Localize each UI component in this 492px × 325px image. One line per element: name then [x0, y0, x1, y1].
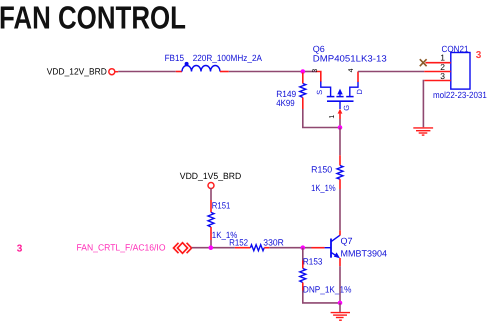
svg-text:FB15: FB15	[165, 53, 184, 63]
wire R151 to signal node	[210, 240, 212, 248]
junction node emitter/ground	[338, 301, 343, 306]
svg-text:1K_1%: 1K_1%	[311, 183, 336, 193]
svg-text:Q6: Q6	[313, 44, 325, 54]
svg-text:DNP_1K_1%: DNP_1K_1%	[303, 285, 352, 295]
svg-text:mol22-23-2031: mol22-23-2031	[433, 90, 487, 100]
ground under CON21	[413, 128, 433, 135]
connector CON21	[424, 53, 470, 90]
resistor R152	[235, 245, 269, 251]
transistor Q6 p-mosfet	[316, 72, 358, 120]
off-page connector	[174, 243, 192, 254]
junction node gate/R150	[338, 125, 343, 130]
resistor R149	[300, 73, 306, 110]
wire CON21 pin 3 to ground	[422, 81, 425, 128]
svg-text:R153: R153	[303, 256, 323, 266]
drain lead	[350, 82, 358, 97]
ferrite bead FB15	[176, 62, 229, 72]
svg-text:4K99: 4K99	[276, 98, 295, 108]
svg-text:MMBT3904: MMBT3904	[341, 249, 388, 259]
transistor Q7 npn	[312, 230, 341, 266]
wire off-page to junction	[192, 247, 235, 249]
wire FB15 to node	[229, 71, 303, 73]
junction node R151/signal	[209, 245, 214, 250]
wire node to Q6 source pin	[303, 71, 316, 73]
svg-text:R151: R151	[212, 201, 231, 211]
svg-text:D: D	[355, 89, 364, 95]
svg-text:3: 3	[17, 243, 23, 254]
wire junction down to R153	[302, 248, 304, 261]
junction node base/R153	[301, 245, 306, 250]
junction node VDD/R149	[301, 69, 306, 74]
terminal circle VDD_12V_BRD	[109, 69, 118, 75]
wire gate node down to R150	[339, 128, 341, 156]
resistor R150	[337, 155, 343, 189]
svg-text:Q7: Q7	[341, 236, 353, 246]
svg-text:330R: 330R	[263, 237, 284, 247]
svg-text:3: 3	[312, 69, 319, 73]
svg-text:4: 4	[348, 68, 355, 72]
svg-text:R150: R150	[311, 164, 332, 174]
svg-text:CON21: CON21	[442, 44, 469, 54]
source lead	[321, 82, 331, 97]
svg-text:VDD_12V_BRD: VDD_12V_BRD	[47, 67, 107, 77]
wire R150 to Q7 collector	[339, 189, 341, 230]
resistor R151	[208, 200, 214, 240]
gate plate	[327, 100, 354, 102]
svg-text:FAN_CRTL_F/AC16/IO: FAN_CRTL_F/AC16/IO	[77, 242, 166, 252]
pin 1 gate stub with arrow	[338, 109, 343, 114]
wire R149 to gate node	[303, 109, 340, 128]
svg-text:DMP4051LK3-13: DMP4051LK3-13	[313, 53, 387, 63]
ground under Q7	[331, 313, 350, 321]
wire terminal to R151	[210, 188, 212, 200]
wire junction to ground	[339, 303, 341, 312]
svg-text:3: 3	[440, 71, 445, 81]
wire Q7 emitter to ground rail	[339, 266, 341, 303]
pin 4 drain stub	[357, 72, 359, 83]
svg-text:R152: R152	[229, 237, 248, 247]
svg-text:3: 3	[476, 50, 482, 61]
svg-text:1: 1	[440, 53, 445, 63]
svg-text:G: G	[342, 105, 351, 111]
svg-text:1: 1	[329, 115, 336, 119]
svg-text:S: S	[315, 90, 324, 95]
wire drain to CON21 pin 2	[358, 71, 424, 73]
svg-text:VDD_1V5_BRD: VDD_1V5_BRD	[180, 171, 242, 181]
wire gate to junction	[339, 119, 341, 128]
no-connect X on pin 1	[420, 59, 427, 66]
gate stem	[339, 102, 341, 109]
body arrow	[339, 93, 341, 96]
resistor R153	[300, 261, 306, 291]
wire VDD_12V rail left of FB15	[118, 71, 176, 73]
wire R152 to Q7 base	[269, 247, 311, 249]
svg-text:FAN CONTROL: FAN CONTROL	[0, 0, 186, 36]
terminal circle VDD_1V5_BRD	[208, 183, 214, 189]
svg-text:220R_100MHz_2A: 220R_100MHz_2A	[193, 53, 262, 63]
pin 3 source stub	[316, 72, 321, 83]
wire R153 to ground rail	[303, 291, 340, 303]
